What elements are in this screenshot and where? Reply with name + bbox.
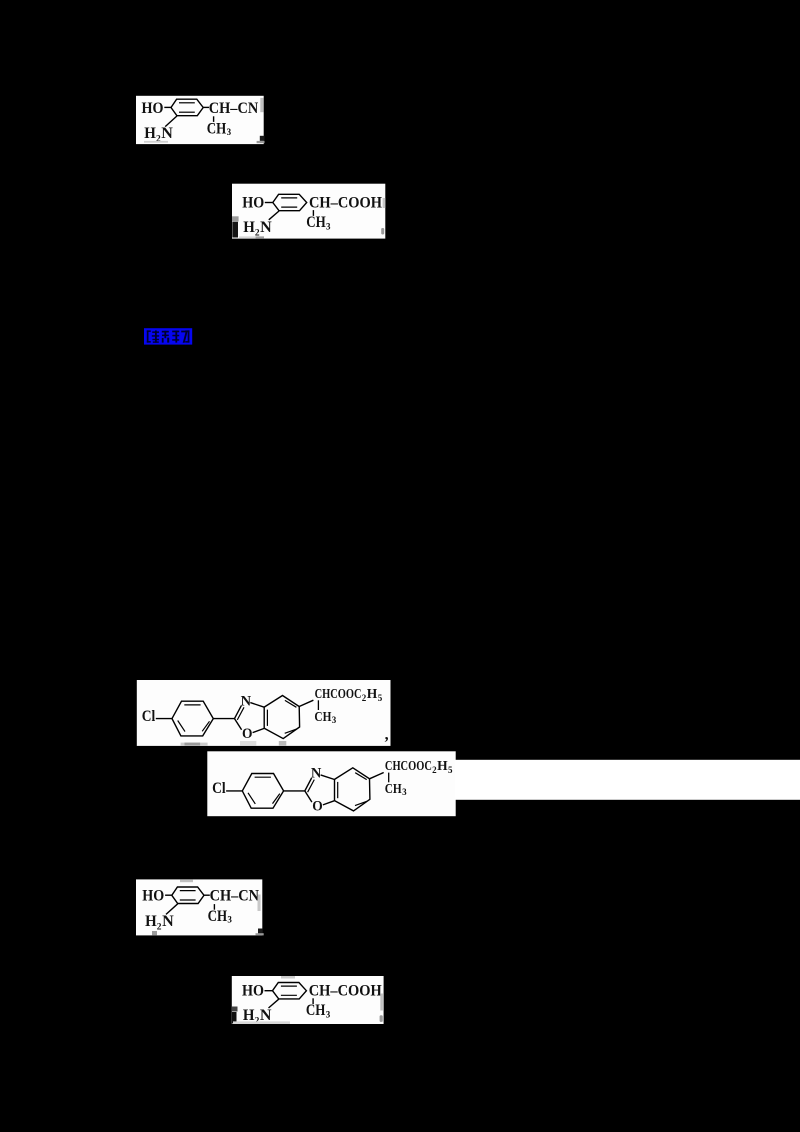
svg-text:O: O <box>312 799 323 815</box>
svg-text:3: 3 <box>227 127 232 137</box>
panel 3 white box <box>137 680 391 746</box>
svg-text:3: 3 <box>402 787 407 797</box>
fused bond C3a-C7a <box>334 779 336 800</box>
svg-text:CH: CH <box>314 710 331 725</box>
panel 3 structure: ethyl 2-[2-(4-chlorophenyl)benzoxazol-5-yl]propanoate <box>142 687 389 744</box>
benzene ring <box>273 194 307 210</box>
svg-text:N: N <box>260 219 272 236</box>
bond C2-O <box>305 791 312 802</box>
panel 6 white box <box>232 976 384 1024</box>
benzene ring <box>273 983 307 999</box>
panel 5 structure: nitrile, shifted copy <box>142 887 259 932</box>
svg-text:CH–CN: CH–CN <box>209 100 259 117</box>
panel 2 artifacts <box>232 216 239 221</box>
double bond top <box>180 890 196 892</box>
benzo ring <box>264 696 299 739</box>
fused ring double bond <box>337 782 339 798</box>
double bond top-right <box>355 773 367 780</box>
svg-text:N: N <box>311 766 322 782</box>
double bond lower-left <box>178 721 185 732</box>
blue highlight box <box>144 328 192 344</box>
panel 2 white box <box>232 184 385 239</box>
svg-text:H: H <box>144 125 156 142</box>
svg-text:H: H <box>243 219 255 236</box>
bond N-C3a <box>321 775 335 780</box>
svg-text:CH–CN: CH–CN <box>210 888 260 905</box>
svg-text:3: 3 <box>326 1010 331 1020</box>
bond HO-ring <box>164 106 171 108</box>
svg-text:CH: CH <box>306 214 326 231</box>
svg-text:H: H <box>437 759 448 774</box>
panel 1 white box <box>136 96 264 144</box>
bond ring-C2 <box>213 718 234 720</box>
bond N-C3a <box>250 703 264 708</box>
bond HO-ring <box>165 894 172 896</box>
fused bond C3a-C7a <box>263 707 265 728</box>
bond CH-CH3 <box>213 904 215 910</box>
bond ring-NH2 <box>269 211 279 220</box>
svg-text:,: , <box>385 727 389 744</box>
panel 5 artifacts <box>180 879 193 882</box>
bond HO-ring <box>265 990 273 992</box>
svg-text:CH–COOH: CH–COOH <box>309 194 383 211</box>
bond O-C7a <box>323 801 335 805</box>
svg-text:3: 3 <box>326 221 331 231</box>
svg-text:HO: HO <box>242 194 264 211</box>
bond ring-NH2 <box>165 116 177 127</box>
bond CH-CH3 <box>388 773 390 783</box>
bond O-C7a <box>253 728 265 732</box>
svg-text:5: 5 <box>378 693 383 703</box>
bond ring-NH2 <box>166 904 178 915</box>
double bond top <box>184 704 200 706</box>
svg-text:HO: HO <box>142 100 164 117</box>
oxazole C2=N double bond <box>305 778 312 791</box>
svg-text:HO: HO <box>142 888 164 905</box>
fused ring double bond <box>266 710 268 726</box>
panel 4 structure: same ester, shifted <box>212 759 453 814</box>
white strip extending right <box>455 760 800 800</box>
svg-text:2: 2 <box>157 922 162 932</box>
bond Cl-ring <box>226 790 242 792</box>
svg-text:CH: CH <box>207 120 227 137</box>
svg-text:Cl: Cl <box>212 780 226 797</box>
svg-text:N: N <box>162 913 174 930</box>
bond ring-NH2 <box>269 999 279 1008</box>
oxazole C2=N double bond <box>235 706 242 719</box>
bond ring-CH <box>370 773 384 779</box>
svg-text:N: N <box>161 125 173 142</box>
svg-text:CH–COOH: CH–COOH <box>309 983 383 1000</box>
double bond top <box>281 197 297 199</box>
panel 6 structure: acid, shifted copy <box>242 983 382 1027</box>
bond C2-O <box>235 719 242 730</box>
double bond bottom-right <box>355 801 367 805</box>
chlorophenyl ring <box>172 701 213 736</box>
bond CH-CH3 <box>213 116 215 122</box>
panel 4 white box <box>207 751 455 816</box>
double bond bottom <box>281 994 297 996</box>
double bond bottom <box>180 899 196 901</box>
chlorophenyl ring <box>242 774 283 809</box>
bond CH-CH3 <box>312 210 314 216</box>
double bond top <box>179 102 195 104</box>
bond CH-CH3 <box>317 700 319 710</box>
svg-text:5: 5 <box>448 765 453 775</box>
comma after panel 2 <box>381 228 384 235</box>
svg-text:Cl: Cl <box>142 708 156 725</box>
svg-text:H: H <box>367 687 378 702</box>
panel 3 artifacts <box>181 743 208 746</box>
svg-text:CH: CH <box>385 782 402 797</box>
double bond top <box>255 776 271 778</box>
double bond lower-right <box>273 794 280 804</box>
panel 5 white box <box>136 879 262 935</box>
bond CH-CH3 <box>312 998 314 1004</box>
bond ring-CH <box>203 106 209 108</box>
svg-text:CH: CH <box>306 1002 326 1019</box>
double bond top <box>281 985 297 987</box>
bond ring-CH <box>204 894 210 896</box>
svg-text:3: 3 <box>227 915 232 925</box>
bond Cl-ring <box>156 718 172 720</box>
benzene ring <box>172 887 204 904</box>
double bond bottom <box>281 206 297 208</box>
svg-text:N: N <box>241 693 252 709</box>
benzo ring <box>335 768 370 811</box>
double bond bottom <box>179 111 195 113</box>
svg-text:H: H <box>145 913 157 930</box>
bond ring-CH <box>299 700 313 706</box>
panel 6 artifacts <box>281 976 295 979</box>
svg-text:CHCOOC: CHCOOC <box>385 759 432 774</box>
double bond lower-right <box>202 721 209 731</box>
svg-text:3: 3 <box>332 715 337 725</box>
double bond lower-left <box>248 793 255 804</box>
bond HO-ring <box>265 202 273 204</box>
double bond bottom-right <box>285 729 297 733</box>
comma after panel 6 <box>380 1015 383 1022</box>
panel 2 structure: 2-(4-hydroxy-3-aminophenyl)propanoic acid <box>242 194 382 238</box>
svg-text:HO: HO <box>242 983 264 1000</box>
bond ring-C2 <box>284 790 305 792</box>
svg-text:O: O <box>242 726 253 742</box>
svg-text:CH: CH <box>208 908 228 925</box>
panel 1 artifacts <box>260 98 263 112</box>
highlight glyphs <box>147 330 190 342</box>
svg-text:2: 2 <box>156 135 161 145</box>
svg-text:CHCOOC: CHCOOC <box>315 687 362 702</box>
panel 1 structure: 2-(4-hydroxy-3-aminophenyl)propanenitrile <box>142 99 259 144</box>
benzene ring <box>171 99 203 116</box>
double bond top-right <box>285 700 297 707</box>
